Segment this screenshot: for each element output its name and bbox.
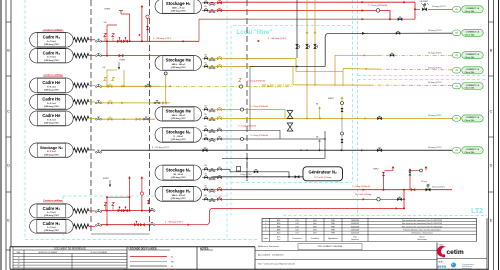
svg-text:EVENT: EVENT	[120, 60, 126, 62]
svg-text:4 – 300 barg @70°C: 4 – 300 barg @70°C	[153, 38, 172, 40]
svg-text:N° DU DOCUMENT: N° DU DOCUMENT	[91, 252, 109, 254]
svg-text:Stockage H₂: Stockage H₂	[166, 189, 191, 194]
svg-text:11 – 116 m3: 11 – 116 m3	[173, 136, 183, 138]
svg-text:300 – 63 m3: 300 – 63 m3	[173, 174, 183, 176]
svg-text:Cadre H₂: Cadre H₂	[43, 50, 61, 55]
svg-text:7 x 7 barg @50 Nm3/h: 7 x 7 barg @50 Nm3/h	[250, 106, 268, 108]
svg-text:@200 barg @70°C: @200 barg @70°C	[44, 60, 60, 62]
svg-text:Accessibilité : Confidentiel: Accessibilité : Confidentiel	[258, 254, 284, 257]
svg-text:EVENT: EVENT	[328, 98, 334, 100]
svg-text:PFD HYMEET CHEVIRE: PFD HYMEET CHEVIRE	[318, 246, 343, 248]
svg-text:Référence Document :: Référence Document :	[258, 245, 280, 248]
svg-text:Approbateur: Approbateur	[328, 237, 338, 240]
svg-text:B: B	[490, 49, 493, 53]
svg-text:LV3: LV3	[296, 230, 299, 232]
svg-text:C: C	[490, 110, 493, 114]
svg-text:Local "libre": Local "libre"	[237, 30, 273, 36]
svg-text:Première diffusion, mise à jou: Première diffusion, mise à jour des obse…	[403, 229, 440, 232]
svg-text:Contrôleur: Contrôleur	[311, 237, 319, 240]
svg-text:50 barg @70°C: 50 barg @70°C	[432, 6, 446, 8]
svg-text:MOE :: MOE :	[439, 261, 445, 263]
svg-text:Dessinateur: Dessinateur	[292, 237, 301, 240]
svg-text:N₂: N₂	[171, 266, 174, 268]
svg-text:Stockage H₂: Stockage H₂	[166, 1, 191, 6]
svg-text:Plan et perçés des connexions: Plan et perçés des connexions Client N. …	[402, 222, 442, 225]
svg-text:3400 L – 140 m3: 3400 L – 140 m3	[172, 114, 185, 117]
svg-text:Client 50b: Client 50b	[465, 56, 475, 59]
svg-text:N₂ 11,6 m3: N₂ 11,6 m3	[47, 151, 56, 153]
svg-text:9 x 7,9 m3: 9 x 7,9 m3	[47, 227, 55, 229]
svg-text:50 barg @70°C: 50 barg @70°C	[428, 82, 442, 84]
svg-text:@200 barg @70°C: @200 barg @70°C	[171, 67, 187, 69]
svg-text:4 – 300 barg @70°C: 4 – 300 barg @70°C	[165, 222, 184, 224]
svg-text:eren: eren	[438, 264, 447, 269]
svg-text:3400 L – 675 m3: 3400 L – 675 m3	[172, 194, 185, 197]
svg-text:Cadre He: Cadre He	[42, 80, 61, 85]
svg-text:Stockage N₂: Stockage N₂	[40, 145, 63, 150]
svg-text:Plan et perçés des connexions: Plan et perçés des connexions Client N. …	[402, 219, 442, 222]
svg-text:50 barg @70°C: 50 barg @70°C	[428, 115, 442, 117]
svg-text:Observations: Observations	[417, 238, 427, 241]
svg-text:Cadre He: Cadre He	[42, 113, 61, 118]
svg-text:7 x 7 barg @50 Nm3/h: 7 x 7 barg @50 Nm3/h	[238, 126, 256, 128]
svg-text:4 – 300 barg @70°C: 4 – 300 barg @70°C	[268, 38, 287, 40]
svg-text:50 barg @70°C: 50 barg @70°C	[428, 30, 442, 32]
svg-text:7 x 7 barg @50 Nm3/h: 7 x 7 barg @50 Nm3/h	[250, 135, 268, 137]
svg-text:5 barg @70°C: 5 barg @70°C	[240, 173, 253, 176]
svg-text:7 x 7 barg @50 Nm3/h: 7 x 7 barg @50 Nm3/h	[368, 4, 387, 7]
svg-text:74,7 m3/h @5 barg: 74,7 m3/h @5 barg	[314, 177, 331, 179]
svg-text:CONNECT. A: CONNECT. A	[466, 84, 480, 87]
svg-text:CONNECT. A: CONNECT. A	[466, 53, 480, 56]
svg-text:LT2: LT2	[471, 208, 483, 215]
svg-text:@200 barg @70°C: @200 barg @70°C	[44, 215, 60, 217]
svg-text:Stockage He: Stockage He	[166, 109, 192, 114]
svg-text:Nature: Nature	[419, 236, 424, 239]
svg-text:LV3: LV3	[296, 233, 299, 235]
svg-text:Date: Date	[353, 236, 357, 239]
svg-text:Vérifications - Observations: Vérifications - Observations	[411, 232, 433, 235]
svg-text:Nom: Nom	[277, 233, 281, 235]
svg-text:@200 barg @70°C: @200 barg @70°C	[44, 154, 60, 156]
svg-text:9 x 7,9 m3: 9 x 7,9 m3	[47, 41, 55, 43]
svg-text:@200 barg @70°C: @200 barg @70°C	[44, 90, 60, 92]
svg-text:DN: DN	[204, 6, 206, 8]
svg-text:9 x 9,1 m3: 9 x 9,1 m3	[47, 87, 55, 89]
svg-text:7 x 7 barg @50 Nm3/h: 7 x 7 barg @50 Nm3/h	[352, 186, 370, 188]
svg-text:50 barg @70°C: 50 barg @70°C	[428, 147, 442, 149]
svg-text:25/04/2024: 25/04/2024	[351, 233, 360, 235]
svg-text:E: E	[7, 219, 10, 223]
svg-text:LV3: LV3	[296, 220, 299, 222]
svg-text:D: D	[7, 164, 10, 168]
svg-text:@200 barg @70°C: @200 barg @70°C	[44, 44, 60, 46]
svg-text:@200 barg @70°C: @200 barg @70°C	[44, 123, 60, 125]
svg-text:9 x 7,9 m3: 9 x 7,9 m3	[47, 57, 55, 59]
svg-text:DN EVENT: DN EVENT	[420, 1, 429, 3]
svg-text:DN: DN	[204, 135, 206, 137]
svg-text:74,7 m3/h @5 barg: 74,7 m3/h @5 barg	[355, 193, 371, 196]
svg-text:50 barg @70°C: 50 barg @70°C	[428, 52, 442, 54]
svg-text:E: E	[490, 219, 493, 223]
svg-text:Client 50b: Client 50b	[465, 87, 475, 90]
svg-text:Stockage N₂: Stockage N₂	[166, 167, 191, 172]
svg-text:3400 L – 75 m3: 3400 L – 75 m3	[172, 6, 184, 9]
svg-text:CONNECT. A: CONNECT. A	[466, 31, 480, 34]
svg-text:C: C	[7, 110, 10, 114]
svg-text:CONNECT. A: CONNECT. A	[466, 7, 480, 10]
svg-text:@200 barg @70°C: @200 barg @70°C	[44, 230, 60, 232]
svg-text:DN: DN	[204, 0, 206, 1]
svg-text:DN: DN	[204, 173, 206, 175]
svg-text:B: B	[7, 49, 10, 53]
svg-text:DN: DN	[204, 165, 206, 167]
svg-text:@200 barg @70°C: @200 barg @70°C	[171, 10, 187, 12]
svg-text:8 – 200 barg @70°C: 8 – 200 barg @70°C	[152, 146, 170, 149]
svg-text:DN: DN	[204, 126, 206, 128]
svg-text:DN: DN	[204, 105, 206, 107]
svg-text:Cadre H₂: Cadre H₂	[43, 206, 61, 211]
svg-text:13/06/2024: 13/06/2024	[351, 220, 360, 222]
svg-text:DOCUMENT DE REFERENCE: DOCUMENT DE REFERENCE	[54, 248, 86, 250]
svg-text:Client 50b: Client 50b	[465, 33, 475, 36]
svg-text:Stockage N₂: Stockage N₂	[166, 130, 191, 135]
svg-text:@200 barg @70°C: @200 barg @70°C	[44, 106, 60, 108]
svg-text:Index: Index	[264, 238, 268, 240]
svg-text:DN: DN	[204, 186, 206, 188]
svg-text:9 x 9,1 m3: 9 x 9,1 m3	[47, 120, 55, 122]
svg-text:EVENT: EVENT	[103, 178, 109, 180]
svg-text:DN: DN	[204, 114, 206, 116]
svg-text:0: 0	[265, 223, 266, 225]
svg-text:Générateur N₂: Générateur N₂	[309, 170, 338, 175]
svg-text:Site : Centre d'essais Hymeet: Site : Centre d'essais Hymeet Cheviré	[258, 263, 296, 266]
svg-text:5 rue de navarre,: 5 rue de navarre,	[462, 264, 475, 266]
svg-text:Cadre H₂: Cadre H₂	[43, 35, 61, 40]
svg-text:Client 50b: Client 50b	[465, 151, 475, 154]
svg-text:@200 barg @70°C: @200 barg @70°C	[171, 118, 187, 120]
svg-text:H₂: H₂	[171, 257, 174, 259]
svg-text:50 barg: 50 barg	[421, 181, 427, 183]
svg-text:Cadre H₂: Cadre H₂	[43, 221, 61, 226]
svg-text:9 x 7,9 m3: 9 x 7,9 m3	[47, 212, 55, 214]
svg-text:DN: DN	[204, 62, 206, 64]
svg-text:LV3: LV3	[296, 226, 299, 228]
svg-text:Client 50b: Client 50b	[465, 119, 475, 122]
svg-text:@200 barg @70°C: @200 barg @70°C	[171, 198, 187, 200]
svg-text:LV3: LV3	[296, 223, 299, 225]
svg-text:cetim: cetim	[447, 249, 464, 256]
svg-text:3400 L – 540 m3: 3400 L – 540 m3	[172, 63, 185, 66]
svg-text:0: 0	[265, 220, 266, 222]
svg-text:30/05/2024: 30/05/2024	[351, 226, 360, 228]
svg-text:11/06/2024: 11/06/2024	[351, 223, 359, 225]
svg-text:CONNECT. A: CONNECT. A	[466, 148, 480, 151]
svg-text:50 barg @70°C: 50 barg @70°C	[428, 67, 442, 69]
svg-text:EVENT: EVENT	[105, 9, 111, 11]
svg-text:50 barg @70°C: 50 barg @70°C	[432, 186, 446, 189]
svg-text:@200 barg @70°C: @200 barg @70°C	[171, 177, 187, 179]
svg-text:Stockage He: Stockage He	[166, 58, 192, 63]
svg-text:0: 0	[265, 226, 266, 228]
svg-text:NOM DU DOCUMENT: NOM DU DOCUMENT	[38, 252, 58, 254]
svg-text:Client 50b: Client 50b	[465, 10, 475, 13]
svg-text:D: D	[490, 164, 493, 168]
svg-text:9 x 9,1 m3: 9 x 9,1 m3	[47, 103, 55, 105]
svg-text:0: 0	[265, 230, 266, 232]
svg-text:CONNECT. A: CONNECT. A	[466, 116, 480, 119]
svg-text:CONNECT. A: CONNECT. A	[466, 68, 480, 71]
svg-text:22/05/2024: 22/05/2024	[351, 230, 360, 232]
svg-text:Client :: Client :	[439, 243, 445, 246]
svg-text:Visa: Visa	[277, 239, 280, 241]
svg-text:DN: DN	[204, 195, 206, 197]
svg-text:@200 barg @70°C: @200 barg @70°C	[171, 139, 187, 141]
svg-text:Plan et perçés des connexions: Plan et perçés des connexions Client N. …	[402, 225, 442, 228]
svg-text:Client 50b: Client 50b	[465, 71, 475, 74]
svg-text:Cadre He: Cadre He	[42, 97, 61, 102]
svg-text:EVENT: EVENT	[373, 169, 378, 171]
svg-text:DN: DN	[204, 54, 206, 56]
